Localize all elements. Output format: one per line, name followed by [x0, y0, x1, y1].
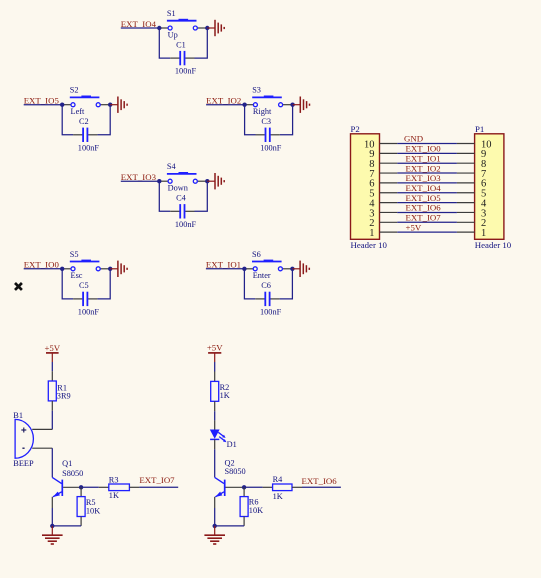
- wire: [51, 448, 53, 477]
- connector P2: [351, 124, 388, 250]
- svg-text:100nF: 100nF: [260, 143, 282, 152]
- net label EXT_IO7: [139, 475, 175, 485]
- svg-text:EXT_IO3: EXT_IO3: [406, 173, 442, 183]
- svg-text:EXT_IO6: EXT_IO6: [406, 203, 442, 213]
- svg-text:S6: S6: [252, 250, 261, 259]
- ground: [293, 97, 310, 113]
- svg-text:1K: 1K: [220, 391, 230, 400]
- net label EXT_IO1: [406, 153, 441, 163]
- wire: [244, 486, 263, 488]
- node EXT_IO1: [206, 260, 241, 270]
- wire: [280, 269, 293, 299]
- wire: [159, 181, 170, 211]
- node EXT_IO2: [206, 96, 241, 106]
- net label GND: [404, 134, 423, 144]
- wire: [139, 486, 178, 488]
- net label EXT_IO3: [406, 173, 442, 183]
- power +5V: [207, 342, 223, 362]
- junction: [290, 267, 294, 271]
- capacitor C5: [73, 281, 99, 316]
- pin 6 of P1: [457, 179, 486, 190]
- net label +5V: [406, 222, 422, 232]
- svg-text:C6: C6: [261, 281, 271, 290]
- svg-text:S3: S3: [252, 86, 261, 95]
- wire: [206, 268, 245, 270]
- svg-text:C3: C3: [261, 117, 271, 126]
- wire: [244, 269, 255, 299]
- net label EXT_IO4: [406, 183, 442, 193]
- junction: [60, 267, 64, 271]
- wire net EXT_IO7: [397, 221, 457, 223]
- svg-text:+5V: +5V: [406, 222, 422, 232]
- svg-text:R4: R4: [273, 475, 284, 484]
- pin 4 of P1: [457, 198, 487, 209]
- svg-text:GND: GND: [404, 134, 423, 144]
- svg-text:100nF: 100nF: [175, 67, 197, 76]
- pin 7 of P1: [457, 169, 486, 180]
- wire: [97, 105, 110, 135]
- junction: [213, 524, 217, 528]
- pin 3 of P1: [457, 208, 486, 219]
- wire: [214, 508, 216, 526]
- svg-text:S8050: S8050: [225, 467, 246, 476]
- transistor Q1: [52, 459, 83, 508]
- svg-text:EXT_IO1: EXT_IO1: [406, 153, 441, 163]
- no-ERC marker X: [15, 283, 22, 290]
- node EXT_IO0: [24, 260, 60, 270]
- wire net EXT_IO1: [397, 162, 457, 164]
- resistor R5: [77, 487, 100, 526]
- svg-text:10K: 10K: [86, 506, 100, 515]
- svg-text:EXT_IO3: EXT_IO3: [121, 172, 157, 182]
- svg-text:EXT_IO4: EXT_IO4: [406, 183, 442, 193]
- svg-text:R3: R3: [109, 475, 119, 484]
- wire net GND: [397, 143, 457, 145]
- wire net EXT_IO6: [397, 211, 457, 213]
- resistor R6: [240, 487, 263, 526]
- net label EXT_IO6: [406, 203, 442, 213]
- wire: [195, 28, 208, 58]
- wire: [214, 362, 216, 372]
- wire: [302, 486, 341, 488]
- svg-text:100nF: 100nF: [175, 220, 197, 229]
- pin 10 of P2: [364, 139, 397, 150]
- wire: [214, 449, 216, 477]
- switch S3: [245, 86, 293, 116]
- svg-text:1: 1: [369, 228, 374, 239]
- svg-text:Header 10: Header 10: [475, 240, 512, 250]
- svg-text:EXT_IO2: EXT_IO2: [206, 96, 241, 106]
- ground: [207, 20, 224, 36]
- wire: [280, 105, 293, 135]
- wire: [51, 362, 53, 371]
- wire: [245, 105, 256, 135]
- resistor R3: [99, 475, 140, 500]
- junction: [290, 103, 294, 107]
- wire: [62, 269, 73, 299]
- wire net EXT_IO5: [397, 202, 457, 204]
- svg-text:EXT_IO2: EXT_IO2: [406, 163, 441, 173]
- svg-text:EXT_IO6: EXT_IO6: [302, 476, 338, 486]
- pin 6 of P2: [369, 179, 397, 190]
- ground: [207, 173, 224, 189]
- LED D1: [210, 420, 237, 449]
- pin 2 of P1: [457, 218, 486, 229]
- svg-text:EXT_IO5: EXT_IO5: [406, 193, 442, 203]
- svg-text:EXT_IO5: EXT_IO5: [24, 96, 60, 106]
- svg-text:+5V: +5V: [207, 342, 223, 352]
- svg-text:Right: Right: [253, 107, 272, 116]
- svg-text:B1: B1: [13, 411, 23, 420]
- switch S2: [62, 86, 110, 116]
- wire net EXT_IO0: [397, 152, 457, 154]
- node EXT_IO3: [121, 172, 157, 182]
- wire net EXT_IO3: [397, 182, 457, 184]
- wire: [52, 525, 81, 527]
- junction: [108, 267, 112, 271]
- connector P1: [475, 124, 512, 250]
- junction: [108, 103, 112, 107]
- pin 8 of P1: [457, 159, 486, 170]
- svg-text:EXT_IO7: EXT_IO7: [139, 475, 175, 485]
- junction: [242, 485, 246, 489]
- net label EXT_IO6: [302, 476, 338, 486]
- capacitor C6: [255, 281, 281, 316]
- svg-text:100nF: 100nF: [78, 308, 100, 317]
- wire net +5V: [397, 231, 457, 233]
- pin 4 of P2: [369, 198, 397, 209]
- svg-text:Enter: Enter: [253, 271, 271, 280]
- pin 1 of P2: [369, 228, 397, 239]
- net label EXT_IO2: [406, 163, 441, 173]
- wire: [51, 411, 53, 430]
- svg-text:C2: C2: [79, 117, 89, 126]
- capacitor C3: [256, 117, 282, 152]
- junction: [79, 485, 83, 489]
- wire: [214, 411, 216, 420]
- ground: [292, 261, 309, 277]
- wire: [195, 181, 208, 211]
- capacitor C1: [170, 40, 196, 75]
- svg-text:S5: S5: [70, 250, 79, 259]
- wire: [121, 180, 160, 182]
- switch S1: [159, 9, 207, 39]
- resistor R4: [263, 475, 302, 501]
- svg-text:S1: S1: [167, 9, 176, 18]
- wire: [51, 508, 53, 526]
- svg-text:100nF: 100nF: [260, 308, 282, 317]
- resistor R1: [48, 371, 70, 411]
- svg-text:S2: S2: [70, 86, 79, 95]
- pin 10 of P1: [457, 139, 492, 150]
- pin 8 of P2: [369, 159, 397, 170]
- ground: [110, 261, 127, 277]
- svg-text:1K: 1K: [109, 491, 119, 500]
- svg-text:P2: P2: [351, 124, 360, 134]
- wire: [159, 28, 170, 58]
- svg-text:BEEP: BEEP: [13, 459, 34, 468]
- svg-text:EXT_IO0: EXT_IO0: [24, 260, 60, 270]
- svg-text:Up: Up: [168, 30, 178, 39]
- pin 7 of P2: [369, 169, 397, 180]
- svg-text:Esc: Esc: [71, 271, 83, 280]
- svg-text:P1: P1: [475, 124, 484, 134]
- junction: [242, 267, 246, 271]
- junction: [60, 103, 64, 107]
- pin 1 of P1: [457, 228, 486, 239]
- pin 5 of P1: [457, 189, 486, 200]
- svg-text:S4: S4: [167, 162, 177, 171]
- pin 5 of P2: [369, 189, 397, 200]
- pin 3 of P2: [369, 208, 397, 219]
- svg-text:C1: C1: [176, 40, 186, 49]
- wire: [206, 104, 245, 106]
- wire net EXT_IO4: [397, 192, 457, 194]
- wire: [97, 269, 110, 299]
- net label EXT_IO0: [406, 144, 442, 154]
- wire: [62, 105, 73, 135]
- svg-text:Left: Left: [71, 107, 86, 116]
- svg-text:Header 10: Header 10: [351, 240, 388, 250]
- svg-text:EXT_IO1: EXT_IO1: [206, 260, 241, 270]
- switch S5: [62, 250, 110, 280]
- net label EXT_IO7: [406, 213, 442, 223]
- pin 2 of P2: [369, 218, 397, 229]
- svg-text:1: 1: [481, 228, 486, 239]
- svg-text:C5: C5: [79, 281, 89, 290]
- pin 9 of P2: [369, 149, 397, 160]
- power +5V: [44, 343, 60, 362]
- ground: [42, 526, 63, 544]
- wire: [215, 525, 244, 527]
- svg-text:1K: 1K: [273, 492, 283, 501]
- wire net EXT_IO2: [397, 172, 457, 174]
- svg-text:EXT_IO0: EXT_IO0: [406, 144, 442, 154]
- svg-text:EXT_IO4: EXT_IO4: [121, 19, 157, 29]
- junction: [157, 26, 161, 30]
- svg-text:EXT_IO7: EXT_IO7: [406, 213, 442, 223]
- transistor Q2: [215, 459, 246, 508]
- node EXT_IO5: [24, 96, 60, 106]
- buzzer B1: [13, 411, 52, 468]
- junction: [157, 179, 161, 183]
- pin 9 of P1: [457, 149, 486, 160]
- svg-text:C4: C4: [176, 194, 187, 203]
- junction: [205, 179, 209, 183]
- wire: [24, 268, 63, 270]
- ground: [110, 97, 127, 113]
- svg-text:Q1: Q1: [62, 459, 72, 468]
- junction: [50, 524, 54, 528]
- svg-text:3R9: 3R9: [57, 391, 71, 400]
- switch S4: [159, 162, 207, 192]
- svg-text:10K: 10K: [249, 506, 263, 515]
- switch S6: [244, 250, 292, 280]
- wire: [81, 486, 99, 488]
- wire: [24, 104, 63, 106]
- svg-text:Down: Down: [168, 184, 189, 193]
- wire: [121, 27, 160, 29]
- svg-text:S8050: S8050: [62, 469, 83, 478]
- svg-text:D1: D1: [227, 440, 237, 449]
- ground: [204, 526, 225, 544]
- resistor R2: [211, 372, 230, 412]
- capacitor C4: [170, 194, 196, 229]
- junction: [205, 26, 209, 30]
- junction: [242, 103, 246, 107]
- net label EXT_IO5: [406, 193, 442, 203]
- svg-text:100nF: 100nF: [78, 143, 100, 152]
- capacitor C2: [73, 117, 99, 152]
- node EXT_IO4: [121, 19, 157, 29]
- svg-text:+5V: +5V: [44, 343, 60, 353]
